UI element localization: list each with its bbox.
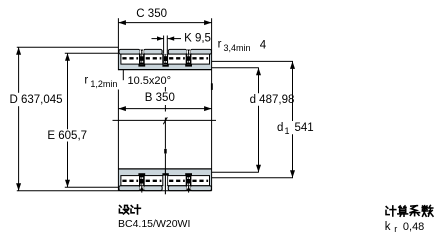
svg-text:C 350: C 350: [136, 8, 167, 20]
svg-text:0,48: 0,48: [403, 221, 424, 233]
svg-text:d: d: [277, 122, 283, 134]
svg-text:K 9,5: K 9,5: [184, 33, 211, 45]
svg-text:4: 4: [260, 39, 267, 51]
svg-text:541: 541: [295, 122, 314, 134]
svg-text:3,4min: 3,4min: [224, 43, 251, 53]
svg-text:1: 1: [285, 126, 290, 136]
svg-text:D 637,045: D 637,045: [10, 94, 63, 106]
svg-text:k: k: [385, 221, 391, 233]
svg-text:1,2min: 1,2min: [90, 79, 117, 89]
svg-text:r: r: [394, 224, 397, 234]
svg-text:E 605,7: E 605,7: [47, 130, 87, 142]
svg-text:r: r: [218, 39, 222, 51]
svg-text:r: r: [84, 75, 88, 87]
svg-text:10.5x20°: 10.5x20°: [128, 75, 172, 87]
svg-text:BC4.15/W20WI: BC4.15/W20WI: [118, 218, 190, 230]
svg-text:B 350: B 350: [145, 92, 175, 104]
svg-text:d 487,98: d 487,98: [250, 94, 295, 106]
